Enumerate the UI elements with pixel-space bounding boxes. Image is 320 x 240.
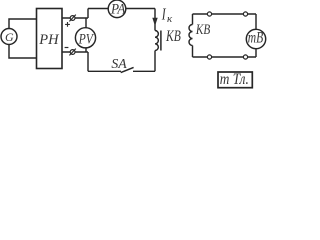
svg-text:mB: mB bbox=[248, 29, 264, 46]
svg-text:КВ: КВ bbox=[195, 22, 210, 38]
svg-text:PA: PA bbox=[110, 1, 126, 17]
svg-text:SA: SA bbox=[111, 57, 127, 72]
svg-text:m Тл.: m Тл. bbox=[220, 71, 249, 88]
svg-text:G: G bbox=[5, 30, 14, 44]
svg-text:РН: РН bbox=[38, 32, 59, 48]
svg-text:КВ: КВ bbox=[165, 28, 181, 45]
svg-text:I: I bbox=[161, 5, 167, 24]
svg-text:к: к bbox=[167, 13, 173, 25]
svg-text:PV: PV bbox=[78, 31, 95, 47]
